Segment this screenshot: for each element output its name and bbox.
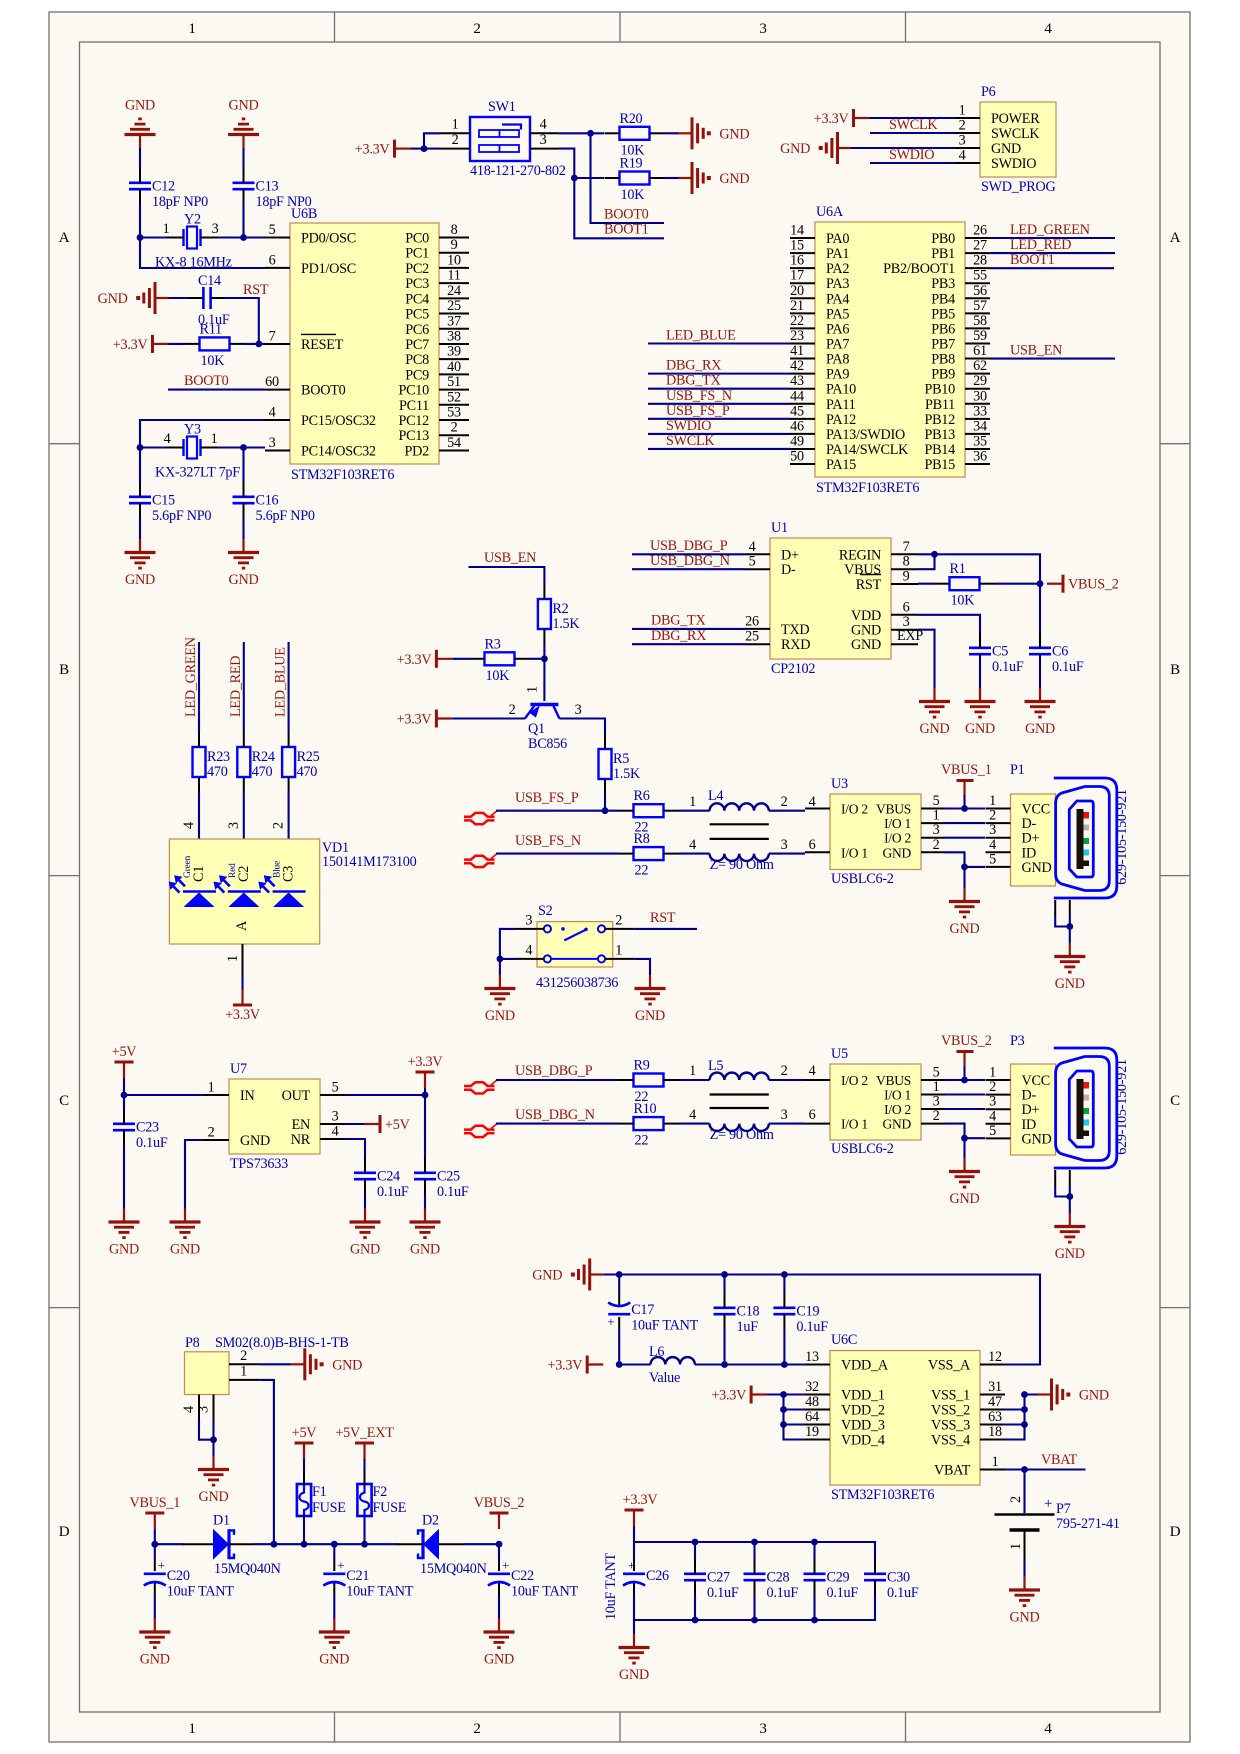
harness entry USB_FS_P (464, 811, 497, 825)
svg-text:SWDIO: SWDIO (889, 147, 934, 163)
svg-text:LED_BLUE: LED_BLUE (666, 327, 736, 343)
harness entry USB_DBG_N (464, 1124, 497, 1138)
wire VBUS_1 to node (963, 795, 965, 809)
connector P3 mini-USB (986, 1033, 1056, 1155)
svg-text:0.1uF: 0.1uF (437, 1184, 469, 1200)
pin 2 of Q1 (509, 702, 516, 718)
svg-text:+3.3V: +3.3V (547, 1358, 583, 1374)
ground GND below U7 (170, 1209, 201, 1258)
net label DBG_TX at U6A (648, 373, 790, 389)
svg-text:R1: R1 (950, 561, 966, 577)
wire USB_FS_N to R8 (496, 853, 619, 855)
wire C25 to ground (424, 1194, 426, 1209)
wire C12 to node (139, 204, 141, 238)
wire U3 GND down (945, 852, 965, 888)
svg-text:4: 4 (1044, 21, 1052, 37)
power VBUS_1 at D1 (130, 1495, 181, 1529)
power +3.3V below VD1 (225, 989, 261, 1023)
ground GND at R19 (679, 162, 750, 194)
svg-text:I/O 2: I/O 2 (841, 1073, 868, 1088)
svg-text:GND: GND (109, 1241, 139, 1257)
wire VBUS_2 to node (963, 1066, 965, 1080)
node VSS3 junction (1021, 1421, 1028, 1428)
svg-text:PB13: PB13 (924, 427, 955, 443)
wire battery to ground (1023, 1561, 1025, 1577)
wire C18 to row (723, 1329, 725, 1365)
svg-text:DBG_RX: DBG_RX (651, 628, 706, 644)
svg-text:RST: RST (650, 910, 676, 926)
svg-text:1: 1 (959, 103, 966, 119)
svg-text:1: 1 (163, 221, 170, 237)
node rail C18 junction (721, 1271, 728, 1278)
wire Q1 collector to R5 (559, 719, 605, 735)
node Y3a junction (137, 444, 144, 451)
pin number 2 of L4 (781, 794, 788, 810)
wire L4 to U3 pin4 (769, 810, 805, 812)
capacitor C25 (414, 1158, 469, 1200)
pin number 4 of U5 (809, 1063, 816, 1079)
svg-text:C1: C1 (191, 866, 207, 882)
node VBUS_1 junction (961, 805, 968, 812)
svg-text:8: 8 (451, 222, 458, 238)
pin 1 of P7 (1008, 1530, 1025, 1561)
svg-text:D1: D1 (213, 1513, 230, 1529)
svg-text:D-: D- (1022, 816, 1037, 832)
svg-text:GND: GND (1055, 1246, 1085, 1262)
wire OUT to +3.3V node (345, 1088, 425, 1095)
svg-text:STM32F103RET6: STM32F103RET6 (831, 1487, 934, 1503)
net label BOOT0 (604, 207, 649, 223)
wire GND pin3 down (918, 630, 935, 688)
svg-text:I/O 1: I/O 1 (884, 1088, 911, 1103)
harness entry USB_DBG_P (464, 1080, 497, 1094)
svg-text:PB15: PB15 (924, 457, 955, 473)
node C29 bottom junction (811, 1617, 818, 1624)
pin 1 of VD1 (225, 944, 243, 974)
net label USB_EN (484, 550, 536, 566)
wire node to C16 (242, 448, 244, 483)
net label LED_RED at U6A (990, 237, 1115, 253)
svg-text:PB5: PB5 (931, 306, 955, 322)
harness entry USB_FS_N (464, 854, 497, 868)
ground GND below P8 (198, 1456, 229, 1505)
svg-text:P1: P1 (1010, 762, 1025, 778)
svg-text:1: 1 (240, 1363, 247, 1379)
svg-text:USB_EN: USB_EN (484, 550, 536, 566)
wire C17 to +3.3V node (618, 1329, 620, 1365)
wire GND to C12 (139, 148, 141, 169)
wire P8 pin1 down (259, 1380, 274, 1544)
net label BOOT0 at U6B (184, 373, 229, 389)
power +3.3V at L6 (547, 1356, 603, 1374)
node C29 top junction (811, 1539, 818, 1546)
svg-text:10uF TANT: 10uF TANT (603, 1553, 619, 1620)
svg-text:23: 23 (790, 328, 804, 344)
svg-text:C16: C16 (256, 493, 279, 509)
svg-text:I/O 2: I/O 2 (841, 802, 868, 817)
wire node to P1 GND (965, 866, 986, 868)
wire VDD3 stub (784, 1423, 806, 1425)
svg-text:5.6pF NP0: 5.6pF NP0 (152, 508, 211, 524)
svg-text:USB_DBG_P: USB_DBG_P (650, 538, 728, 554)
svg-text:D2: D2 (422, 1513, 439, 1529)
svg-text:RESET: RESET (301, 337, 344, 353)
wire P3 shield to ground (1055, 1170, 1070, 1213)
net label BOOT1 (604, 222, 649, 238)
ground GND below C20 (139, 1619, 170, 1668)
svg-text:10uF TANT: 10uF TANT (167, 1584, 234, 1600)
wire +3.3V to SW1 (411, 148, 425, 150)
svg-text:2: 2 (473, 21, 480, 37)
wire L5 to U5 pin4 (769, 1079, 805, 1081)
inductor L4 lower (710, 854, 774, 873)
svg-text:PB6: PB6 (931, 321, 955, 337)
svg-text:3: 3 (933, 1094, 940, 1110)
wire REGIN to VBUS_2 corner (918, 554, 1040, 583)
wire node A1 to U6B pin6 (140, 238, 265, 269)
node A2 junction (240, 234, 247, 241)
svg-text:R20: R20 (620, 111, 643, 127)
wire U5 VBUS to P3 VCC (945, 1079, 985, 1081)
svg-text:3: 3 (989, 822, 996, 838)
svg-text:R24: R24 (252, 749, 275, 765)
svg-text:3: 3 (212, 221, 219, 237)
wire S2 to ground (499, 959, 501, 975)
wire VBAT net (1005, 1468, 1086, 1470)
svg-text:Blue: Blue (273, 861, 283, 878)
ground GND below C24 (350, 1209, 381, 1258)
resistor R6 (619, 788, 679, 836)
wire U7 GND to ground (185, 1140, 204, 1209)
svg-text:VSS_4: VSS_4 (931, 1433, 970, 1449)
svg-text:D-: D- (781, 562, 796, 578)
svg-text:0.1uF: 0.1uF (887, 1585, 919, 1601)
svg-text:3: 3 (781, 837, 788, 853)
svg-text:C5: C5 (992, 644, 1008, 660)
wire U3 IO2 to P1 D+ (945, 837, 985, 839)
svg-text:+3.3V: +3.3V (408, 1054, 444, 1070)
node C28 bottom junction (751, 1617, 758, 1624)
resistor R8 (619, 831, 679, 879)
svg-text:RST: RST (243, 282, 269, 298)
svg-text:1: 1 (525, 686, 541, 693)
svg-text:+: + (1044, 1496, 1052, 1512)
svg-text:PC8: PC8 (405, 352, 429, 368)
svg-text:1: 1 (211, 431, 218, 447)
svg-text:26: 26 (973, 223, 987, 239)
svg-text:25: 25 (745, 629, 759, 645)
node P8 row junction (271, 1541, 278, 1548)
pin number 3 of Y2 (212, 221, 219, 237)
svg-text:PC13: PC13 (398, 428, 429, 444)
node C21 row junction (331, 1541, 338, 1548)
wire C19 to row (783, 1329, 785, 1365)
wire R5 to USB_FS_P (604, 794, 606, 811)
net label DBG_RX at U1 (632, 628, 745, 644)
svg-text:GND: GND (920, 721, 950, 737)
svg-text:2: 2 (208, 1125, 215, 1141)
svg-text:C25: C25 (437, 1169, 460, 1185)
svg-text:10K: 10K (951, 593, 976, 609)
svg-text:I/O 2: I/O 2 (884, 1102, 911, 1117)
node VSS2 junction (1021, 1406, 1028, 1413)
svg-text:+: + (337, 1558, 344, 1573)
capacitor C15 (129, 482, 211, 524)
svg-text:PC11: PC11 (399, 398, 429, 414)
wire C28 stub top (753, 1542, 755, 1559)
svg-text:B: B (1170, 662, 1180, 678)
wire S2 pin1 to ground (634, 959, 650, 975)
svg-text:3: 3 (959, 133, 966, 149)
fuse F2 (357, 1471, 406, 1529)
resistor R10 (619, 1101, 679, 1149)
wire +3.3V to Q1 emitter (452, 717, 525, 719)
svg-text:L6: L6 (649, 1344, 664, 1360)
node P3 GND junction (961, 1135, 968, 1142)
svg-text:PD1/OSC: PD1/OSC (301, 261, 356, 277)
svg-text:43: 43 (790, 373, 804, 389)
wire SW1 pin3 down (558, 149, 664, 239)
svg-text:PA6: PA6 (826, 321, 849, 337)
pin number 2 of L5 (781, 1063, 788, 1079)
wire P8 to ground (212, 1440, 214, 1456)
pin number 3 of L5 (781, 1107, 788, 1123)
wire R3 to base node (530, 658, 545, 660)
pin number 3 of L4 (781, 837, 788, 853)
power +3.3V above C26 (623, 1492, 659, 1526)
svg-text:2: 2 (781, 794, 788, 810)
wire S2 pin2 RST (634, 928, 697, 930)
svg-text:PB8: PB8 (931, 352, 955, 368)
svg-text:R2: R2 (552, 601, 568, 617)
node P3 shield junction (1066, 1193, 1073, 1200)
ground GND below C25 (410, 1209, 441, 1258)
net label SWDIO at U6A (648, 418, 790, 434)
svg-text:46: 46 (790, 418, 804, 434)
wire BOOT0 to U6B pin60 (168, 389, 265, 391)
svg-text:GND: GND (1022, 1131, 1052, 1147)
svg-text:PA9: PA9 (826, 367, 849, 383)
svg-text:PC6: PC6 (405, 322, 429, 338)
resistor R9 (619, 1058, 679, 1106)
wire C20 to ground (154, 1595, 156, 1619)
diode D1 15MQ040N (183, 1513, 281, 1578)
capacitor C23 (113, 1109, 168, 1151)
svg-text:2: 2 (989, 808, 996, 824)
wire U3 IO1 to P1 D- (945, 822, 985, 824)
wire +5V_EXT to F2 (363, 1459, 365, 1472)
inductor L5 lower (710, 1124, 774, 1143)
wire R24 to VD1 (243, 792, 245, 839)
net label RST at S2 (650, 910, 676, 926)
ground GND below C26 (619, 1634, 650, 1683)
wire to SW1 pin1 (424, 133, 440, 148)
svg-text:7: 7 (269, 328, 276, 344)
wire +5V node to C23 (123, 1095, 125, 1109)
svg-text:49: 49 (790, 433, 804, 449)
wire LED_BLUE to resistor (288, 717, 290, 732)
power +3.3V at SW1 (355, 140, 411, 158)
wire F2 to row (363, 1515, 365, 1544)
svg-text:6: 6 (809, 837, 816, 853)
svg-text:+5V: +5V (385, 1117, 411, 1133)
ground GND at R20 (679, 117, 750, 149)
net label USB_FS_N (515, 833, 581, 849)
resistor R19 (605, 156, 665, 204)
capacitor C12 (129, 168, 208, 210)
wire U5 IO1 to P3 D- (945, 1093, 985, 1095)
svg-text:VDD: VDD (851, 608, 881, 624)
svg-text:2: 2 (933, 837, 940, 853)
svg-text:150141M173100: 150141M173100 (322, 854, 417, 870)
ground GND below U3 (949, 888, 980, 937)
power +5V above F1 (292, 1425, 318, 1459)
power +3.3V at VDD (711, 1386, 767, 1404)
wire C26 bottom rail (634, 1595, 875, 1620)
svg-text:PB3: PB3 (931, 276, 955, 292)
svg-text:FUSE: FUSE (312, 1500, 346, 1516)
node VDD2 junction (780, 1406, 787, 1413)
svg-text:B: B (59, 662, 69, 678)
svg-text:1: 1 (689, 794, 696, 810)
svg-text:GND: GND (950, 921, 980, 937)
svg-text:GND: GND (883, 845, 912, 860)
wire P8 pins34 join (199, 1420, 214, 1440)
power VBUS_2 at U1 (1047, 575, 1119, 593)
svg-text:PB14: PB14 (924, 442, 955, 458)
svg-text:PC10: PC10 (398, 383, 429, 399)
svg-text:VBAT: VBAT (934, 1463, 971, 1479)
crystal Y3 (155, 422, 240, 481)
resistor R23 (193, 732, 231, 792)
svg-text:SWD_PROG: SWD_PROG (981, 179, 1055, 195)
wire Y2 pin1 to node A1 (140, 236, 166, 238)
wire C15 to ground (139, 518, 141, 539)
svg-text:+: + (607, 1314, 614, 1329)
svg-text:Green: Green (183, 856, 193, 878)
svg-text:A: A (1170, 230, 1181, 246)
resistor R1 (935, 561, 995, 609)
svg-text:VSS_3: VSS_3 (931, 1418, 970, 1434)
svg-text:SWCLK: SWCLK (991, 126, 1040, 142)
svg-text:PA10: PA10 (826, 382, 856, 398)
svg-text:PC14/OSC32: PC14/OSC32 (301, 443, 376, 459)
capacitor C30 (864, 1559, 919, 1601)
svg-text:VBAT: VBAT (1041, 1452, 1078, 1468)
usb-uart U1 CP2102 (745, 520, 923, 677)
svg-text:2: 2 (473, 1721, 480, 1737)
svg-text:19: 19 (805, 1424, 819, 1440)
svg-text:VCC: VCC (1022, 1073, 1050, 1089)
svg-text:R8: R8 (634, 831, 650, 847)
pin number 1 of Y2 (163, 221, 170, 237)
esd protection U5 USBLC6-2 (805, 1046, 945, 1157)
svg-text:+3.3V: +3.3V (623, 1492, 659, 1508)
svg-text:LED_RED: LED_RED (1010, 237, 1071, 253)
pin number 1 of L4 (689, 794, 696, 810)
node L6 junction (616, 1361, 623, 1368)
wire L6 to U6C pin13 (695, 1363, 805, 1365)
svg-text:45: 45 (790, 403, 804, 419)
svg-text:32: 32 (805, 1379, 819, 1395)
svg-text:0.1uF: 0.1uF (707, 1585, 739, 1601)
svg-text:FUSE: FUSE (373, 1500, 407, 1516)
inductor L6 (649, 1344, 695, 1386)
usb receptacle glyph P3 (1054, 1048, 1130, 1168)
svg-text:+3.3V: +3.3V (355, 142, 391, 158)
wire U3 VBUS to P1 VCC (945, 807, 985, 809)
power +3.3V at Q1 emitter (397, 710, 453, 728)
svg-text:VDD_A: VDD_A (841, 1358, 889, 1374)
net label SWCLK at U6A (648, 433, 790, 449)
svg-text:P8: P8 (185, 1335, 200, 1351)
ground GND below P3 (1054, 1213, 1085, 1262)
svg-text:63: 63 (988, 1409, 1002, 1425)
svg-text:5.6pF NP0: 5.6pF NP0 (256, 508, 315, 524)
svg-text:1uF: 1uF (737, 1319, 759, 1335)
fuse F1 (297, 1471, 346, 1529)
svg-text:3: 3 (759, 1721, 766, 1737)
wire C14 to RST corner (225, 298, 259, 344)
svg-text:D+: D+ (781, 547, 799, 563)
svg-text:5: 5 (989, 1123, 996, 1139)
svg-text:GND: GND (125, 572, 155, 588)
svg-text:10K: 10K (486, 668, 511, 684)
svg-text:37: 37 (447, 313, 461, 329)
node S2 junction (497, 956, 504, 963)
wire D1 to F2 segment (254, 1543, 398, 1545)
diode D2 15MQ040N (397, 1513, 487, 1578)
wire node to C15 (139, 448, 141, 483)
svg-text:PA7: PA7 (826, 336, 849, 352)
svg-text:4: 4 (749, 539, 756, 555)
wire VBUS_1 to row (154, 1529, 156, 1544)
svg-text:VBUS_2: VBUS_2 (941, 1033, 992, 1049)
svg-text:C13: C13 (256, 179, 279, 195)
wire U5 GND down (945, 1124, 965, 1158)
svg-text:42: 42 (790, 358, 804, 374)
svg-text:1: 1 (208, 1080, 215, 1096)
svg-text:LED_GREEN: LED_GREEN (1010, 222, 1090, 238)
svg-text:VSS_A: VSS_A (928, 1358, 971, 1374)
svg-text:VDD_2: VDD_2 (841, 1403, 885, 1419)
svg-text:REGIN: REGIN (839, 547, 881, 563)
wire LED_GREEN to resistor (198, 717, 200, 732)
ground GND at C14 (98, 282, 169, 314)
svg-text:PB2/BOOT1: PB2/BOOT1 (883, 261, 955, 277)
svg-text:CP2102: CP2102 (771, 661, 815, 677)
ground GND at P8 pin2 (291, 1348, 362, 1380)
svg-text:10uF TANT: 10uF TANT (631, 1318, 698, 1334)
svg-text:41: 41 (790, 343, 804, 359)
resistor R24 (237, 732, 275, 792)
wire rail to C19 (783, 1275, 785, 1294)
power +5V at EN (364, 1115, 411, 1133)
svg-text:GND: GND (1010, 1609, 1040, 1625)
svg-text:PA1: PA1 (826, 246, 849, 262)
svg-text:24: 24 (447, 283, 461, 299)
svg-text:GND: GND (332, 1357, 362, 1373)
svg-text:R5: R5 (613, 751, 629, 767)
net label LED_BLUE at U6A (648, 327, 790, 343)
net label DBG_RX at U6A (648, 358, 790, 374)
wire R2 to base node (543, 644, 545, 659)
wire C27 stub top (694, 1542, 696, 1559)
wire C21 to ground (333, 1595, 335, 1619)
svg-text:USB_FS_P: USB_FS_P (666, 403, 730, 419)
microcontroller U6C STM32F103RET6 (805, 1332, 1005, 1503)
power +3.3V above OUT (408, 1054, 444, 1088)
